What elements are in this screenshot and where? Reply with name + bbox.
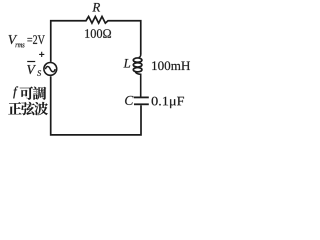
text =2V bbox=[27, 35, 44, 44]
text char 調 bbox=[33, 87, 46, 100]
wire: inductor exit down to capacitor top plate bbox=[135, 71, 141, 96]
label R bbox=[92, 3, 100, 12]
plus sign polarity mark bbox=[39, 52, 44, 57]
label C bbox=[125, 96, 133, 105]
AC source Vs circle bbox=[44, 63, 57, 76]
inductor L coil entry hook bbox=[139, 54, 141, 58]
subscript S bbox=[37, 70, 41, 76]
label V of phasor Vs bbox=[27, 65, 36, 74]
wire: left branch up, top wire with resistor R zigzag, right wire down to inductor bbox=[51, 17, 141, 62]
value 100 ohm bbox=[85, 29, 111, 38]
text char 正 bbox=[8, 102, 21, 114]
inductor L coil loop 2 bbox=[133, 63, 142, 67]
sine wave inside source bbox=[45, 66, 55, 71]
text char 弦 bbox=[21, 102, 35, 115]
text char 可 bbox=[20, 87, 33, 100]
label L bbox=[123, 59, 130, 68]
inductor L coil loop 3 bbox=[133, 68, 142, 72]
capacitor C bottom plate bbox=[134, 103, 149, 105]
text char 波 bbox=[34, 102, 48, 115]
wire: capacitor to bottom-right corner, bottom wire, left wire up to source bbox=[51, 76, 141, 135]
label V of Vrms bbox=[9, 35, 18, 44]
label f frequency bbox=[13, 86, 18, 98]
value 0.1uF bbox=[152, 97, 184, 108]
overline of Vs phasor bbox=[27, 61, 35, 63]
subscript rms bbox=[16, 44, 25, 48]
inductor L coil loop 1 bbox=[133, 58, 142, 62]
capacitor C top plate bbox=[134, 96, 149, 98]
value 100mH bbox=[152, 61, 190, 70]
